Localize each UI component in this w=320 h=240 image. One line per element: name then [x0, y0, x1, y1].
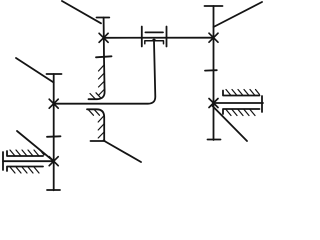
diagonal shaft to shaft II top	[62, 1, 101, 23]
shaft III (right vertical shaft)	[213, 6, 215, 140]
diagonal shaft from guide lower	[104, 141, 142, 163]
top horizontal shaft	[104, 37, 214, 39]
gear end cap T (bottom of shaft I)	[47, 189, 60, 191]
gear tick on shaft II	[96, 56, 112, 57]
bearing B1 upper rail	[7, 151, 43, 156]
gear end cap T (top of shaft II)	[97, 17, 110, 19]
fixed guide upper (hatched, around shift rod)	[89, 58, 105, 99]
diagonal shaft to shaft I top	[16, 58, 54, 83]
node X3 (junction shaft II / top shaft)	[99, 33, 108, 42]
shaft II (centre-left vertical shaft)	[103, 18, 105, 59]
guide lower hatching	[89, 110, 105, 138]
bearing B1 lower rail	[7, 167, 43, 172]
gear tick on shaft III	[205, 69, 217, 71]
diagonal shaft to node X2	[17, 131, 54, 161]
node X4 (junction top shaft / shaft III)	[209, 33, 218, 42]
gear end cap T (bottom of shaft III)	[208, 139, 221, 141]
bearing B2 lower hatching	[226, 110, 255, 116]
node X2 (bearing junction on shaft I)	[49, 157, 58, 166]
shaft I (left vertical shaft)	[53, 74, 55, 190]
node X5 (bearing junction on shaft III)	[209, 99, 218, 108]
gear tick on shaft I	[47, 135, 61, 138]
clutch K shift fork bracket	[145, 41, 164, 44]
shift rod (vertical then horizontal to shaft I)	[54, 42, 156, 104]
guide upper hatching	[90, 65, 105, 99]
bearing B2 end bar	[261, 96, 263, 112]
clutch K sleeve bar	[145, 31, 163, 33]
bearing B2 upper hatching	[226, 90, 260, 96]
bearing B1 axis (left fixed bearing)	[3, 160, 54, 162]
clutch K right flange	[166, 27, 168, 47]
gear end cap T (top of shaft III)	[205, 5, 223, 7]
bearing B1 end bar	[2, 152, 4, 170]
bearing B2 lower rail	[223, 109, 260, 114]
guide lower end cap T	[91, 140, 105, 142]
clutch K fork pivot	[151, 39, 157, 41]
bearing B1 upper hatching	[10, 150, 44, 156]
clutch K left flange	[141, 27, 143, 47]
diagonal shaft from shaft III top	[214, 2, 263, 27]
bearing B1 lower hatching	[10, 167, 39, 173]
bearing B2 axis (right fixed bearing)	[214, 102, 264, 104]
gear end cap T (top of shaft I)	[47, 73, 62, 75]
diagonal shaft from node X5	[213, 106, 248, 141]
node X1 (rod junction on shaft I)	[49, 99, 58, 108]
fixed guide lower (hatched, around shift rod)	[87, 109, 104, 140]
bearing B2 upper rail	[223, 91, 260, 96]
